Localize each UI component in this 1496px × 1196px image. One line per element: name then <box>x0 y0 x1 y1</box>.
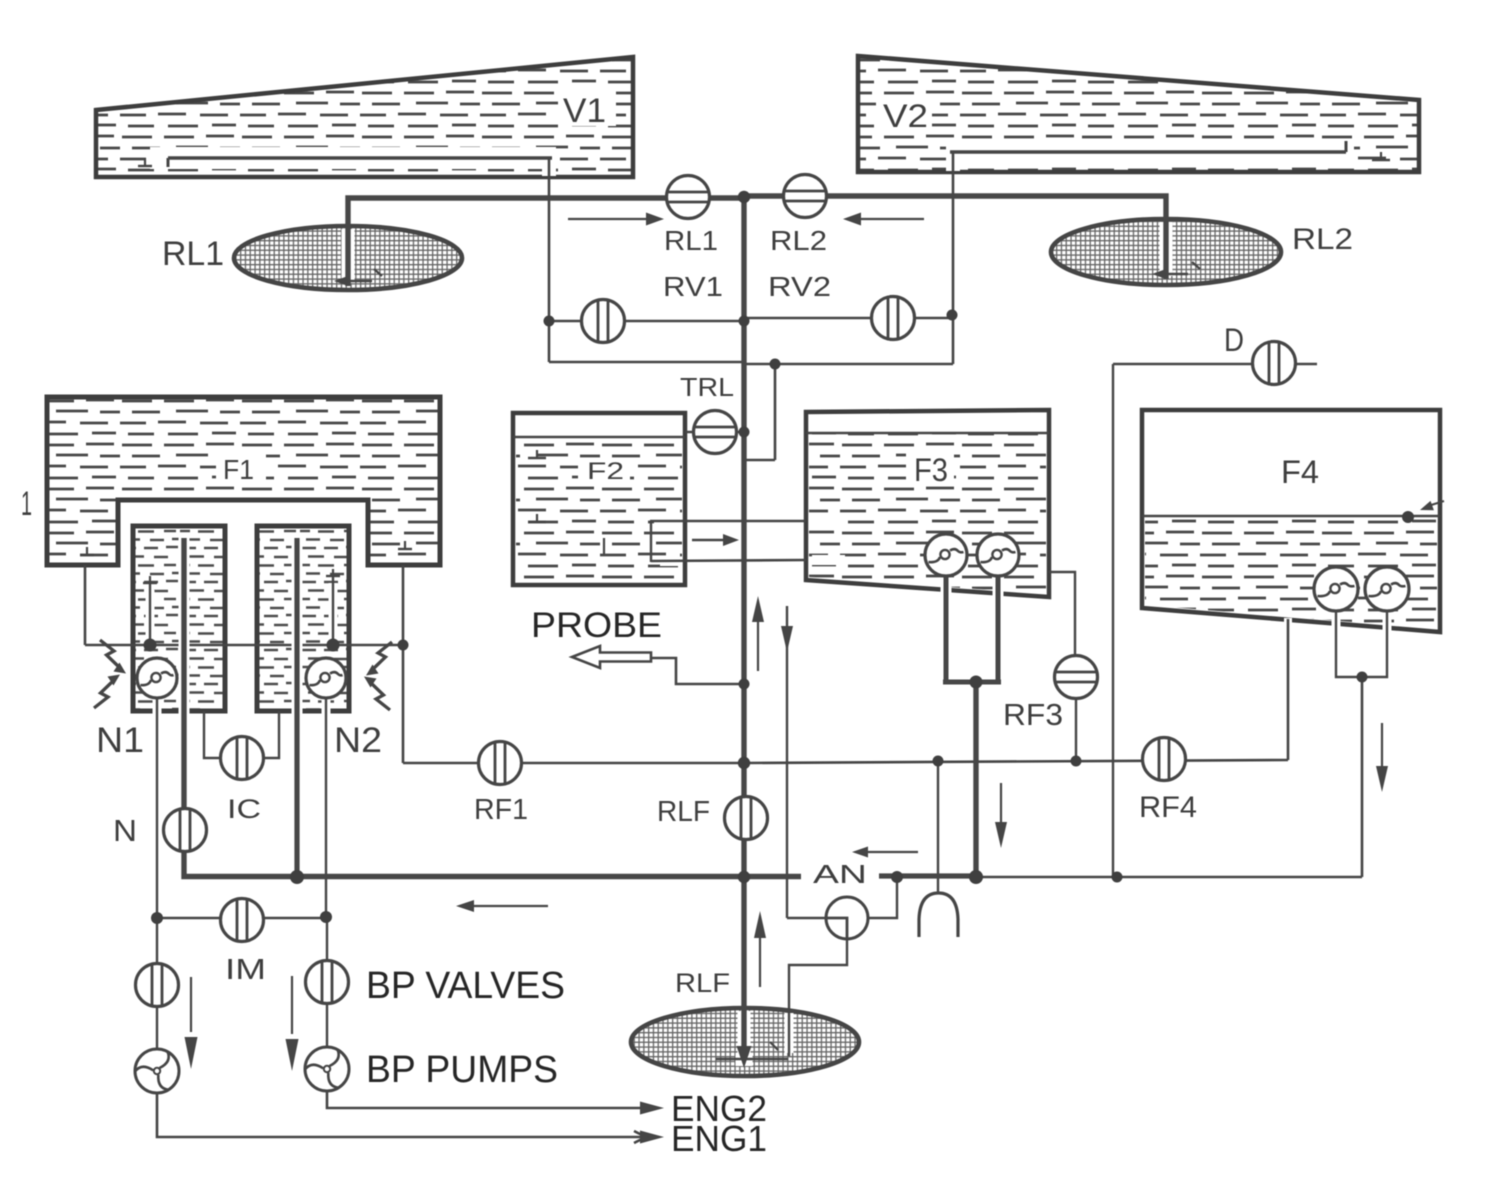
node dome tee <box>933 756 944 767</box>
pump N1 <box>137 658 177 698</box>
node drain corner <box>398 640 409 651</box>
arrow up lower centre <box>759 934 761 987</box>
wire BP line right <box>326 917 328 1048</box>
svg-text:RLF: RLF <box>675 968 730 998</box>
arrow down F3 area <box>1000 783 1002 824</box>
pump N2 <box>306 658 346 698</box>
mark in F1 left <box>80 554 94 556</box>
lightning arrows at N1 pump <box>100 640 126 674</box>
tank F1 <box>47 397 440 565</box>
valve RF1 <box>479 742 522 785</box>
svg-text:IC: IC <box>227 794 261 824</box>
wire N2 suction <box>329 583 338 640</box>
pipe inside V2 <box>946 141 1354 163</box>
wire F4 pump riser <box>1361 677 1364 877</box>
node IM left <box>151 912 163 924</box>
wire F2-F3 lower transfer <box>660 556 680 566</box>
svg-text:1: 1 <box>21 485 32 523</box>
svg-text:F3: F3 <box>914 452 948 488</box>
node RV2 right <box>947 310 958 321</box>
svg-text:RLF: RLF <box>657 796 710 828</box>
valve RF3 <box>1055 656 1098 699</box>
arrow down jettison <box>781 626 793 652</box>
node D drop foot <box>1112 872 1123 883</box>
arrow ENG1 <box>640 1131 664 1144</box>
wire node down <box>774 364 777 460</box>
node gallery centre <box>738 757 750 769</box>
node N2 pipe join <box>290 870 304 884</box>
node TRL <box>739 427 750 438</box>
arrow down BP left <box>190 977 192 1032</box>
arrow F4 inlet <box>1428 501 1444 506</box>
wire V1 drop to centre <box>549 361 745 364</box>
valve RL1 <box>667 176 710 219</box>
wire IM link <box>157 917 326 919</box>
wire D drop <box>1112 364 1114 877</box>
compartment N2 <box>257 526 349 711</box>
anchor RLF <box>737 1046 752 1068</box>
fuel level F3 <box>806 432 1049 434</box>
wire D valve run <box>1113 363 1254 365</box>
vent dome <box>919 893 958 937</box>
svg-text:RV1: RV1 <box>663 271 723 302</box>
tank F3 <box>806 410 1049 597</box>
wire AN drain <box>789 938 847 1010</box>
pump F4 left <box>1314 567 1358 611</box>
fuel level F4 <box>1142 515 1440 517</box>
svg-text:BP PUMPS: BP PUMPS <box>366 1049 558 1091</box>
svg-text:V1: V1 <box>563 92 606 130</box>
reservoir ellipse RLF <box>631 1008 859 1076</box>
anchor RL1 <box>334 276 348 286</box>
pipe N1 pump out <box>179 535 190 716</box>
wire V1 standpipe drop <box>548 158 551 362</box>
valve IM <box>221 899 264 942</box>
wire PROBE branch <box>652 658 744 684</box>
svg-text:F4: F4 <box>1281 454 1319 490</box>
valve RL2 <box>784 175 827 218</box>
wire N2 pump feed down <box>322 700 331 715</box>
pipe F3 pumps out <box>941 580 952 640</box>
pipe inside V1 <box>150 147 556 169</box>
wire F4 pump drops <box>1332 614 1341 640</box>
svg-text:PROBE: PROBE <box>531 606 662 645</box>
pipe V2 feed <box>1160 222 1173 276</box>
wire F1 drain manifold <box>85 644 403 647</box>
arrow left above AN <box>866 851 918 853</box>
wire BP line left <box>156 918 158 1050</box>
pipe cross-feed after AN text <box>879 873 976 878</box>
valve RF4 <box>1143 738 1186 781</box>
node V2 drop <box>770 359 781 370</box>
valve IC <box>221 737 264 780</box>
wire N1 suction <box>146 590 155 640</box>
svg-text:N: N <box>113 813 137 848</box>
svg-text:RL2: RL2 <box>770 225 827 256</box>
svg-text:IM: IM <box>225 954 266 986</box>
pipe centre line <box>738 1011 751 1053</box>
svg-text:RL2: RL2 <box>1292 223 1353 256</box>
compartment N1 <box>133 526 225 711</box>
pipe N2 pump out <box>292 535 303 716</box>
BP pump right <box>305 1047 349 1091</box>
svg-text:D: D <box>1224 322 1244 358</box>
svg-text:RF4: RF4 <box>1139 791 1197 824</box>
svg-text:F1: F1 <box>223 454 254 485</box>
valve TRL <box>694 411 737 454</box>
wire IC link <box>204 711 224 758</box>
valve AN <box>826 897 868 939</box>
node N1 suction <box>144 639 157 652</box>
arrow into RL1 valve <box>568 218 648 220</box>
reservoir ellipse RL1 <box>234 226 462 290</box>
node F3 riser foot <box>969 870 983 884</box>
svg-text:F2: F2 <box>587 458 624 485</box>
svg-text:V2: V2 <box>883 98 928 134</box>
wire F1 right drain <box>402 565 405 645</box>
valve BP left <box>136 964 179 1007</box>
mark in F1 right <box>398 548 412 550</box>
fuel level F2 <box>513 436 685 438</box>
arrow up centre <box>757 618 759 671</box>
arrow down F4 riser <box>1381 723 1383 768</box>
arrow left below cross-feed <box>470 905 548 907</box>
wire refuel gallery right <box>744 760 1288 763</box>
valve RV2 <box>872 297 915 340</box>
pump F3 right <box>977 534 1019 576</box>
arrow into RL2 valve <box>858 218 924 220</box>
svg-text:RF1: RF1 <box>474 794 528 826</box>
wire cross-feed thin right <box>976 876 1362 879</box>
node F4 pumps join <box>1357 672 1368 683</box>
svg-text:BP VALVES: BP VALVES <box>366 965 565 1007</box>
wire gallery to dome <box>937 761 939 894</box>
wire RF3 branch upper <box>1049 572 1075 659</box>
valve N <box>164 809 207 852</box>
wire F2 internal drop <box>650 521 652 562</box>
svg-text:RL1: RL1 <box>162 235 224 273</box>
node centre top <box>738 191 750 203</box>
tank V1 <box>96 57 633 177</box>
arrow F2 to F3 <box>692 539 724 541</box>
label V1 <box>558 90 616 126</box>
node IM right <box>320 911 332 923</box>
anchor RL2 <box>1152 269 1166 279</box>
pump F4 right <box>1365 567 1409 611</box>
label F3 <box>906 450 954 484</box>
tank V2 <box>858 56 1419 172</box>
wire AN inlet <box>787 917 830 919</box>
tank F2 <box>513 413 685 585</box>
svg-text:TRL: TRL <box>680 372 734 402</box>
PROBE hollow arrow <box>572 646 651 668</box>
node AN return <box>891 871 903 883</box>
wire ENG2 run <box>327 1090 646 1108</box>
node RV1 centre <box>739 316 750 327</box>
svg-text:RL1: RL1 <box>664 225 718 256</box>
svg-text:AN: AN <box>813 859 867 889</box>
wire V2 drop to node <box>744 363 953 366</box>
svg-text:N2: N2 <box>334 721 382 760</box>
label F1 <box>216 450 266 484</box>
wire TRL stub <box>685 431 744 433</box>
node N2 suction <box>327 639 340 652</box>
wire V2 standpipe drop <box>952 152 955 364</box>
marks in F2 <box>528 457 546 459</box>
pump F3 left <box>925 534 967 576</box>
wire RF3 branch lower <box>1075 696 1077 761</box>
node F3 pumps join <box>970 676 983 689</box>
svg-text:RV2: RV2 <box>768 271 831 302</box>
wire drain down to gallery <box>402 645 405 763</box>
wire refuel gallery left <box>403 762 744 765</box>
arrow ENG2 <box>640 1102 664 1115</box>
wire F1 left drain <box>84 565 87 645</box>
node cross-feed centre <box>738 871 750 883</box>
arrow down BP right <box>291 976 293 1034</box>
wire node to centre pipe <box>744 459 775 462</box>
label V2 <box>876 96 932 130</box>
svg-text:ENG1: ENG1 <box>671 1118 767 1159</box>
wire gallery riser to F4 <box>1284 618 1292 628</box>
valve D <box>1253 342 1296 385</box>
wire F2-F3 upper transfer <box>654 516 680 526</box>
label F2 <box>578 458 630 483</box>
valve RV1 <box>582 300 625 343</box>
wire jettison drop <box>786 606 788 918</box>
reservoir ellipse RL2 <box>1051 219 1281 285</box>
wire AN outlet up <box>865 879 897 918</box>
wire ENG1 run <box>157 1092 646 1137</box>
lightning arrows at N2 pump <box>366 642 392 676</box>
pipe V1 feed <box>342 229 355 283</box>
node RF3 tee <box>1071 756 1082 767</box>
svg-text:RF3: RF3 <box>1003 697 1063 732</box>
tank F4 <box>1142 410 1440 632</box>
wire N1 pump feed down <box>153 700 162 715</box>
node RV1 left <box>544 316 555 327</box>
wire RV2 branch <box>744 317 953 319</box>
node PROBE <box>739 679 750 690</box>
pipe F3 riser down <box>973 682 978 877</box>
svg-text:N1: N1 <box>96 721 144 760</box>
node F4 inlet <box>1402 511 1414 523</box>
valve BP right <box>306 961 349 1004</box>
BP pump left <box>135 1049 179 1093</box>
valve RLF <box>725 797 768 840</box>
wire RV1 branch <box>549 320 745 322</box>
wire D valve stub <box>1294 363 1317 365</box>
